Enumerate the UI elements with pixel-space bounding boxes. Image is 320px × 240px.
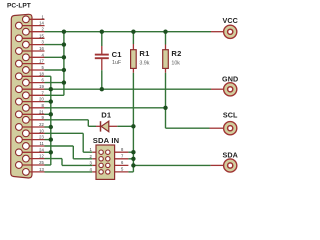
junction <box>49 112 53 116</box>
svg-text:20: 20 <box>39 97 44 102</box>
svg-text:23: 23 <box>39 135 44 140</box>
pin 11 circle <box>23 143 30 150</box>
wire stub pin 8 <box>26 107 45 109</box>
svg-text:5: 5 <box>41 65 44 70</box>
wire stub pin 23 <box>19 139 45 141</box>
wire header pin6 to SDA bus <box>110 164 128 166</box>
wire stub pin 9 <box>26 119 45 121</box>
connector J1 PC-LPT body <box>11 14 32 178</box>
pin 5 circle <box>23 67 30 74</box>
wire SDA bus vertical (D1 to header) <box>132 126 134 172</box>
pin 10 circle <box>23 130 30 137</box>
svg-text:R2: R2 <box>171 49 181 58</box>
svg-text:8: 8 <box>41 103 44 108</box>
junction <box>49 150 53 154</box>
svg-text:SCL: SCL <box>223 110 238 119</box>
svg-text:1: 1 <box>41 14 44 19</box>
wire stub pin 1 <box>26 18 45 20</box>
wire stub pin 2 <box>26 31 45 33</box>
junction <box>62 42 66 46</box>
svg-text:15: 15 <box>39 33 44 38</box>
wire stub pin 15 <box>19 37 45 39</box>
junction <box>131 157 135 161</box>
svg-text:22: 22 <box>39 122 44 127</box>
svg-text:SDA IN: SDA IN <box>93 136 120 145</box>
wire stub pin 3 <box>26 44 45 46</box>
wire header pin8 to SDA bus <box>110 151 128 153</box>
wire stub pin 4 <box>26 56 45 58</box>
wire stub pin 17 <box>19 63 45 65</box>
svg-text:11: 11 <box>39 141 44 146</box>
wire pin21 to bus A <box>45 113 51 115</box>
wire C1 bottom lead <box>101 59 103 70</box>
wire pin20 to bus A <box>45 101 51 103</box>
svg-text:12: 12 <box>39 154 44 159</box>
pin 8 circle <box>23 104 30 111</box>
wire D1 anode to SDA bus <box>109 125 118 127</box>
junction <box>131 124 135 128</box>
wire pin3 to bus B <box>45 44 64 46</box>
pin 25 circle <box>16 162 23 169</box>
wire C1 top lead <box>101 32 103 46</box>
svg-text:3: 3 <box>41 40 44 45</box>
svg-text:4: 4 <box>41 52 44 57</box>
svg-text:SDA: SDA <box>222 151 237 160</box>
header pin circle right row 2 <box>106 157 110 161</box>
pin 1 circle <box>23 16 30 23</box>
pin 17 circle <box>16 60 23 67</box>
wire header pin5 to SDA bus <box>110 171 128 173</box>
wire pin22 to bus A <box>45 126 51 128</box>
wire stub pin 5 <box>26 69 45 71</box>
svg-text:C1: C1 <box>112 50 123 59</box>
junction <box>62 30 66 34</box>
svg-text:3.9k: 3.9k <box>139 60 149 66</box>
svg-text:21: 21 <box>39 109 44 114</box>
junction <box>49 87 53 91</box>
wire stub pin 16 <box>19 50 45 52</box>
wire stub pin 22 <box>19 126 45 128</box>
svg-text:5: 5 <box>121 167 124 172</box>
junction <box>49 125 53 129</box>
wire pin13 to header pin4 <box>45 171 93 173</box>
pin 24 circle <box>16 149 23 156</box>
wire R1 top lead from VCC rail <box>132 32 134 44</box>
connector SDA IN body <box>96 145 115 179</box>
header pin circle right row 4 <box>106 170 110 174</box>
pin 6 circle <box>23 79 30 86</box>
svg-text:VCC: VCC <box>222 16 237 25</box>
svg-text:2: 2 <box>41 27 44 32</box>
svg-text:7: 7 <box>41 90 44 95</box>
svg-text:4: 4 <box>89 167 92 172</box>
svg-text:GND: GND <box>222 74 238 83</box>
wire R2 bottom lead / SCL to pad <box>165 68 167 72</box>
wire pin5 to bus B <box>45 69 64 71</box>
wire stub pin 25 <box>19 164 45 166</box>
wire pin8 to R2 (SCL net) <box>45 107 166 109</box>
svg-text:14: 14 <box>39 21 44 26</box>
pin 18 circle <box>16 73 23 80</box>
wire R1 bottom lead to SDA bus <box>132 68 134 72</box>
junction <box>100 30 104 34</box>
wire R2 top lead from VCC rail <box>165 32 167 45</box>
svg-text:16: 16 <box>39 46 44 51</box>
wire header pin7 to SDA bus <box>110 158 128 160</box>
resistor R2 <box>163 50 169 69</box>
pin 19 circle <box>16 86 23 93</box>
svg-text:7: 7 <box>121 154 124 159</box>
junction <box>100 87 104 91</box>
svg-text:10: 10 <box>39 128 44 133</box>
wire bus B vertical (pins 2-7) <box>63 32 65 96</box>
junction <box>163 30 167 34</box>
pin 15 circle <box>16 35 23 42</box>
wire stub pin 11 <box>26 145 45 147</box>
svg-text:3: 3 <box>89 160 92 165</box>
svg-text:13: 13 <box>39 167 44 172</box>
header pin circle left row 3 <box>99 163 103 167</box>
pin 22 circle <box>16 124 23 131</box>
header pin circle right row 1 <box>106 150 110 154</box>
wire header left stubs <box>92 151 99 153</box>
junction <box>131 30 135 34</box>
diode D1 <box>101 121 109 132</box>
svg-text:2: 2 <box>89 154 92 159</box>
junction <box>131 150 135 154</box>
wire stub pin 21 <box>19 113 45 115</box>
wire pin6 to bus B <box>45 82 64 84</box>
header pin circle left row 1 <box>99 150 103 154</box>
junction <box>49 99 53 103</box>
wire pin9 to D1 cathode <box>45 119 89 121</box>
wire stub pin 6 <box>26 82 45 84</box>
wire stub pin 13 <box>26 171 45 173</box>
wire stub pin 10 <box>26 132 45 134</box>
svg-text:10k: 10k <box>171 60 180 66</box>
junction <box>62 80 66 84</box>
wire stub pin 20 <box>19 101 45 103</box>
pad VCC <box>224 25 237 38</box>
junction <box>62 68 66 72</box>
wire pin25 to bus A <box>45 164 51 166</box>
header pin circle left row 2 <box>99 157 103 161</box>
wire pin10 to header pin1 <box>45 132 84 134</box>
pad SCL <box>224 122 237 135</box>
wire pin18 to bus A <box>45 75 51 77</box>
wire SDA line to pad <box>133 164 210 166</box>
pin 14 circle <box>16 22 23 29</box>
svg-text:24: 24 <box>39 147 44 152</box>
wire stub pin 12 <box>26 158 45 160</box>
pin 13 circle <box>23 169 30 176</box>
pin 7 circle <box>23 92 30 99</box>
wire GND bus A vertical (pins 18-25) <box>50 76 52 165</box>
pin 21 circle <box>16 111 23 118</box>
wire stub pin 19 <box>19 88 45 90</box>
capacitor C1 <box>95 55 109 59</box>
pin 20 circle <box>16 98 23 105</box>
wire stub pin 18 <box>19 75 45 77</box>
wire stub pin 7 <box>26 94 45 96</box>
pad SDA <box>224 159 237 172</box>
header pin circle right row 3 <box>106 163 110 167</box>
svg-text:19: 19 <box>39 84 44 89</box>
pad GND <box>224 83 237 96</box>
svg-text:6: 6 <box>41 78 44 83</box>
pin 3 circle <box>23 41 30 48</box>
pin 12 circle <box>23 155 30 162</box>
wire pin23 to bus A <box>45 139 51 141</box>
wire pin4 to bus B <box>45 56 64 58</box>
pin 16 circle <box>16 48 23 55</box>
wire GND rail (pin19 to GND pad) <box>45 88 212 90</box>
svg-text:PC-LPT: PC-LPT <box>7 3 31 10</box>
wire pin11 to header pin2 <box>45 145 74 147</box>
svg-text:1: 1 <box>89 147 92 152</box>
svg-text:R1: R1 <box>139 49 150 58</box>
junction <box>163 106 167 110</box>
pin 9 circle <box>23 116 30 123</box>
junction <box>131 163 135 167</box>
pin 4 circle <box>23 54 30 61</box>
wire pin24 to bus A <box>45 151 51 153</box>
header pin circle left row 4 <box>99 170 103 174</box>
wire stub pin 14 <box>19 25 45 27</box>
pin 23 circle <box>16 136 23 143</box>
wire VCC rail (pin2 to VCC pad) <box>45 31 212 33</box>
svg-text:6: 6 <box>121 160 124 165</box>
wire pin12 to header pin3 <box>45 158 63 160</box>
svg-text:8: 8 <box>121 147 124 152</box>
svg-text:1uF: 1uF <box>112 60 122 66</box>
pin 2 circle <box>23 28 30 35</box>
wire pin7 to bus B <box>45 94 64 96</box>
svg-text:18: 18 <box>39 71 44 76</box>
svg-text:9: 9 <box>41 115 44 120</box>
svg-text:25: 25 <box>39 160 44 165</box>
junction <box>62 55 66 59</box>
resistor R1 <box>131 50 137 69</box>
wire stub pin 24 <box>19 151 45 153</box>
svg-text:17: 17 <box>39 59 44 64</box>
junction <box>49 137 53 141</box>
svg-text:D1: D1 <box>101 111 112 120</box>
